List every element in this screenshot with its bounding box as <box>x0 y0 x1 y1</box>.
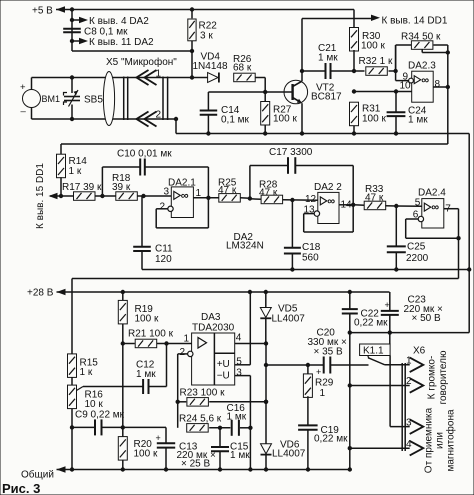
svg-text:1 мк: 1 мк <box>318 53 338 64</box>
svg-text:От приемника: От приемника <box>424 407 435 473</box>
svg-text:100 к: 100 к <box>273 114 297 125</box>
svg-text:1: 1 <box>156 69 162 80</box>
svg-text:3: 3 <box>406 417 412 428</box>
svg-text:× 25 В: × 25 В <box>181 459 211 470</box>
svg-text:DA3: DA3 <box>201 312 221 323</box>
svg-text:+: + <box>156 433 161 443</box>
svg-text:К выв. 15 DD1: К выв. 15 DD1 <box>35 163 46 229</box>
svg-text:∞: ∞ <box>327 196 335 208</box>
svg-text:R34 50 к: R34 50 к <box>401 32 441 43</box>
svg-text:2200: 2200 <box>406 253 429 264</box>
svg-text:TDA2030: TDA2030 <box>192 323 235 334</box>
svg-text:C10 0,01 мк: C10 0,01 мк <box>117 149 172 160</box>
svg-text:+U: +U <box>217 359 230 370</box>
svg-text:∞: ∞ <box>431 202 439 214</box>
svg-text:R23 100 к: R23 100 к <box>180 388 226 399</box>
svg-text:DA2.3: DA2.3 <box>408 61 436 72</box>
svg-text:X6: X6 <box>413 346 426 357</box>
svg-text:3: 3 <box>164 187 170 198</box>
svg-text:× 50 В: × 50 В <box>412 313 442 324</box>
svg-text:1: 1 <box>184 334 190 345</box>
svg-text:10: 10 <box>400 81 412 92</box>
svg-text:LM324N: LM324N <box>226 241 264 252</box>
svg-text:0,1 мк: 0,1 мк <box>221 115 250 126</box>
svg-text:2: 2 <box>156 110 162 121</box>
svg-text:1: 1 <box>406 355 412 366</box>
svg-text:5: 5 <box>415 198 421 209</box>
svg-text:говорителю: говорителю <box>438 350 449 404</box>
svg-text:1 мк: 1 мк <box>136 369 156 380</box>
svg-text:0,22 мк: 0,22 мк <box>314 434 348 445</box>
svg-text:100 к: 100 к <box>362 114 386 125</box>
svg-text:+: + <box>20 82 26 93</box>
svg-text:R21 100 к: R21 100 к <box>128 329 174 340</box>
svg-text:0,22 мк: 0,22 мк <box>354 318 388 329</box>
svg-text:560: 560 <box>302 253 319 264</box>
svg-text:LL4007: LL4007 <box>272 314 306 325</box>
svg-text:R24 5,6 к: R24 5,6 к <box>179 414 222 425</box>
svg-text:5: 5 <box>236 357 242 368</box>
svg-text:2: 2 <box>406 376 412 387</box>
svg-text:4: 4 <box>406 439 412 450</box>
svg-text:∞: ∞ <box>421 74 429 86</box>
svg-text:+: + <box>385 300 390 310</box>
svg-text:120: 120 <box>155 254 172 265</box>
svg-text:1 мк: 1 мк <box>230 450 250 461</box>
svg-text:DA2 2: DA2 2 <box>314 182 342 193</box>
svg-text:10 к: 10 к <box>85 399 104 410</box>
svg-text:68 к: 68 к <box>233 63 252 74</box>
svg-text:C9 0,22 мк: C9 0,22 мк <box>75 410 125 421</box>
svg-text:R29: R29 <box>315 378 334 389</box>
svg-text:+28 В: +28 В <box>27 288 54 299</box>
svg-text:BC817: BC817 <box>311 92 342 103</box>
svg-text:47 к: 47 к <box>365 193 384 204</box>
svg-text:DA2.1: DA2.1 <box>168 178 196 189</box>
svg-text:3: 3 <box>236 368 242 379</box>
svg-text:47 к: 47 к <box>259 188 278 199</box>
svg-text:3 к: 3 к <box>200 31 213 42</box>
svg-text:+: + <box>316 367 321 377</box>
svg-text:100 к: 100 к <box>134 449 158 460</box>
svg-text:X5 "Микрофон": X5 "Микрофон" <box>106 56 177 68</box>
svg-text:∞: ∞ <box>181 190 189 202</box>
svg-text:К выв. 4 DA2: К выв. 4 DA2 <box>89 16 149 27</box>
svg-text:R32 1 к: R32 1 к <box>359 56 393 67</box>
svg-text:1 мк: 1 мк <box>227 412 247 423</box>
svg-text:39 к: 39 к <box>112 182 131 193</box>
svg-text:Рис. 3: Рис. 3 <box>2 481 40 495</box>
svg-text:47 к: 47 к <box>218 185 237 196</box>
svg-text:4: 4 <box>236 333 242 344</box>
svg-text:1 мк: 1 мк <box>408 115 428 126</box>
svg-text:100 к: 100 к <box>361 41 385 52</box>
svg-text:Общий: Общий <box>21 469 54 481</box>
svg-text:К выв. 11 DA2: К выв. 11 DA2 <box>89 37 154 48</box>
svg-text:К выв. 14 DD1: К выв. 14 DD1 <box>382 16 448 27</box>
svg-text:–: – <box>21 106 27 117</box>
svg-text:C18: C18 <box>302 242 321 253</box>
svg-text:К громко-: К громко- <box>427 356 438 400</box>
svg-text:LL4007: LL4007 <box>272 449 306 460</box>
svg-text:K1.1: K1.1 <box>363 346 384 357</box>
svg-text:2: 2 <box>160 202 166 213</box>
svg-text:SB5: SB5 <box>84 95 103 106</box>
svg-text:BM1: BM1 <box>42 94 61 104</box>
svg-text:магнитофона: магнитофона <box>445 409 457 472</box>
svg-text:2: 2 <box>180 347 186 358</box>
svg-text:100 к: 100 к <box>135 314 159 325</box>
svg-text:× 35 В: × 35 В <box>314 347 344 358</box>
svg-text:или: или <box>435 432 446 449</box>
svg-text:1N4148: 1N4148 <box>193 61 228 72</box>
svg-text:1 к: 1 к <box>69 166 82 177</box>
svg-text:C25: C25 <box>407 242 426 253</box>
svg-text:C8 0,1 мк: C8 0,1 мк <box>84 27 128 38</box>
svg-text:DA2.4: DA2.4 <box>418 188 446 199</box>
svg-text:C17 3300: C17 3300 <box>269 147 313 158</box>
svg-text:C11: C11 <box>155 244 173 255</box>
svg-text:1: 1 <box>320 388 326 399</box>
svg-text:8: 8 <box>435 79 441 90</box>
svg-text:+5 В: +5 В <box>32 6 53 17</box>
svg-text:1 к: 1 к <box>80 367 93 378</box>
svg-text:12: 12 <box>305 194 317 205</box>
svg-text:−U: −U <box>217 371 230 382</box>
svg-text:R17 39 к: R17 39 к <box>62 182 102 193</box>
